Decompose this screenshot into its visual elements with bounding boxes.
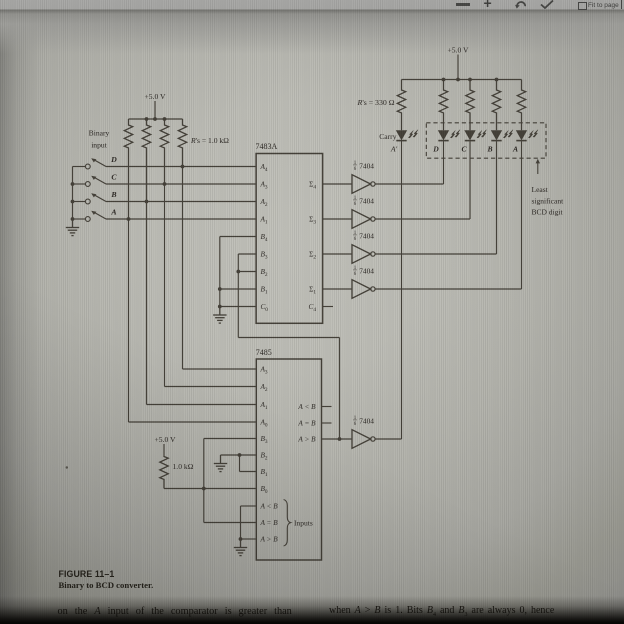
- svg-text:A0: A0: [260, 419, 268, 429]
- toolbar icon: zoom in (plus): [484, 0, 492, 11]
- junction B2 / add-6 net: [236, 270, 240, 274]
- junction input D / pull-up & comparator column: [181, 165, 185, 169]
- wire: LED column up to LED D: [443, 141, 445, 184]
- wire: 7485 B3 to pull-up net: [204, 438, 256, 440]
- svg-text:6: 6: [354, 167, 357, 172]
- ground (switch common): [66, 219, 79, 236]
- ground (7485 cascade inputs): [234, 539, 247, 556]
- toolbar icon: check mark: [540, 0, 554, 9]
- switch B (input B): [85, 193, 106, 204]
- svg-text:+5.0 V: +5.0 V: [447, 46, 469, 55]
- inverter U2 1/6 7404: [352, 161, 375, 193]
- wire: 7483A C0 to ground tie: [220, 306, 256, 308]
- svg-text:7404: 7404: [359, 266, 374, 275]
- wire: LED column up to LED B: [496, 141, 498, 254]
- svg-text:Σ2: Σ2: [309, 251, 316, 261]
- inverter U4 1/6 7404: [352, 231, 375, 263]
- wire: input line B to 7483A: [106, 201, 256, 203]
- svg-text:7483A: 7483A: [256, 142, 278, 151]
- wire: 7483A B4 to ground line: [220, 236, 256, 238]
- wire: 7485 B2 to ground: [240, 454, 257, 456]
- wire: into 7485 A0: [129, 421, 257, 423]
- wire: into 7485 A1: [147, 404, 257, 406]
- svg-text:6: 6: [354, 272, 357, 277]
- wire: input line C to 7483A: [106, 183, 256, 185]
- junction input B: [145, 200, 149, 204]
- svg-text:D: D: [432, 145, 439, 154]
- resistor 330 ohm (LED A): [517, 80, 525, 131]
- svg-text:7404: 7404: [359, 161, 374, 170]
- wire: 7485 A>B input to ground: [241, 538, 257, 540]
- wire: inverter U3 output: [375, 218, 470, 220]
- speck on page: [66, 466, 68, 468]
- svg-text:A = B: A = B: [297, 420, 316, 428]
- resistor 1.0k pull-up (input A): [124, 119, 132, 219]
- wire: input B down to 7485 A1: [146, 202, 148, 405]
- wire: 7483A B2 to add-6 net: [238, 271, 256, 273]
- switch A (input A): [85, 211, 106, 222]
- wire: input line D to 7483A: [106, 166, 256, 168]
- svg-text:A > B: A > B: [260, 536, 279, 544]
- wire: LED supply bus: [402, 79, 522, 81]
- svg-text:+5.0 V: +5.0 V: [144, 92, 166, 101]
- wire: input D down to 7485 A3: [182, 167, 184, 370]
- wire: 7485 B1 to ground tie: [240, 471, 257, 473]
- junction on LED bus: [442, 78, 446, 82]
- svg-text:6: 6: [354, 237, 357, 242]
- svg-text:A1: A1: [260, 401, 268, 411]
- svg-text:1.0 kΩ: 1.0 kΩ: [173, 462, 194, 471]
- wire: add-6 net vertical: [237, 254, 239, 338]
- svg-text:B2: B2: [261, 268, 268, 278]
- caption: Binary to BCD converter.: [59, 580, 154, 590]
- wire: A<B output stub: [322, 406, 332, 408]
- toolbar icon: undo arrow: [514, 0, 528, 9]
- wire: add-6 net horizontal: [238, 337, 339, 339]
- svg-text:B4: B4: [261, 233, 268, 243]
- resistor 1.0k pull-up (input B): [142, 119, 150, 202]
- wire: 7483A B3 to add-6 net: [238, 253, 256, 255]
- svg-text:input: input: [91, 141, 108, 150]
- wire: A=B output stub: [322, 422, 332, 424]
- svg-text:7404: 7404: [359, 196, 374, 205]
- wire: into 7485 A3: [183, 368, 257, 370]
- ground (7485 B2,B1): [214, 455, 227, 472]
- wire: switch C stub from ground bus: [73, 183, 86, 185]
- svg-text:B: B: [110, 190, 116, 199]
- wire: into 7485 A2: [165, 386, 257, 388]
- svg-text:Least: Least: [532, 185, 549, 194]
- svg-text:Σ1: Σ1: [309, 286, 316, 296]
- junction B1 / ground tie: [218, 287, 222, 291]
- wire: pull-up bus: [129, 118, 183, 120]
- wire: carry LED cathode down to inverter U6 output: [401, 141, 403, 439]
- svg-text:A3: A3: [260, 181, 268, 191]
- wire: A<B / A>B input tie: [240, 506, 242, 539]
- wire: 7485 A<B input to ground: [241, 505, 257, 507]
- svg-text:significant: significant: [532, 196, 565, 205]
- svg-text:A: A: [110, 208, 116, 217]
- wire: +5V stem to LED bus: [457, 55, 459, 80]
- inverter U6 1/6 7404: [352, 416, 375, 448]
- svg-text:A′: A′: [390, 145, 398, 154]
- svg-text:Σ4: Σ4: [309, 181, 316, 191]
- LED D: [438, 130, 460, 141]
- wire: switch common ground bus: [72, 167, 74, 220]
- svg-text:Carry: Carry: [379, 132, 396, 141]
- svg-text:A2: A2: [260, 198, 268, 208]
- wire: sigma3 to inverter U3 input: [323, 218, 352, 220]
- svg-text:+5.0 V: +5.0 V: [154, 435, 176, 444]
- svg-text:A1: A1: [260, 216, 268, 226]
- wire: inverter U6 output to carry LED: [375, 438, 402, 440]
- svg-text:BCD digit: BCD digit: [532, 208, 564, 217]
- toolbar icon: fit to page: [578, 2, 587, 10]
- svg-text:B3: B3: [261, 435, 268, 445]
- svg-text:A4: A4: [260, 163, 268, 173]
- svg-text:C4: C4: [309, 303, 317, 313]
- wire: 7483A B1 to ground tie: [220, 288, 256, 290]
- wire: pull-up resistor to 7485 B0: [164, 488, 256, 490]
- resistor 1.0k pull-up (input C): [160, 119, 168, 184]
- svg-text:A < B: A < B: [260, 503, 279, 511]
- svg-text:B0: B0: [261, 485, 268, 495]
- svg-text:R's = 1.0 kΩ: R's = 1.0 kΩ: [190, 136, 229, 145]
- svg-text:6: 6: [354, 202, 357, 207]
- wire: C4 stub: [323, 306, 333, 308]
- junction on LED bus: [468, 78, 472, 82]
- svg-text:D: D: [110, 155, 117, 164]
- wire: input line A to 7483A: [106, 218, 256, 220]
- wire: inverter U5 output: [375, 288, 522, 290]
- IC U1 7483A 4-bit adder: [256, 154, 323, 324]
- toolbar icon: zoom out (minus): [456, 3, 470, 6]
- brace: cascade inputs: [284, 500, 291, 547]
- switch D (input D): [85, 158, 106, 169]
- svg-text:A = B: A = B: [260, 519, 279, 527]
- svg-text:B3: B3: [261, 251, 268, 261]
- resistor 330 ohm (carry LED): [397, 80, 405, 131]
- wire: B2 tie to ground: [221, 454, 240, 456]
- svg-text:C: C: [111, 173, 117, 182]
- wire: +5V stem to pull-up bus: [154, 101, 156, 119]
- junction on LED bus: [495, 78, 499, 82]
- ground (7483A B4,B1,C0): [213, 307, 227, 324]
- svg-text:B: B: [486, 145, 492, 154]
- junction C0 / ground tie: [218, 305, 222, 309]
- wire: switch A stub from ground bus: [73, 218, 86, 220]
- svg-text:A < B: A < B: [297, 403, 316, 411]
- wire: add-6 net down to A-greater-B: [339, 338, 341, 440]
- junction A>B input / ground: [239, 537, 243, 541]
- svg-text:A2: A2: [260, 383, 268, 393]
- svg-text:C: C: [461, 145, 467, 154]
- resistor 330 ohm (LED C): [466, 80, 474, 131]
- svg-text:A3: A3: [260, 366, 268, 376]
- inverter U3 1/6 7404: [352, 196, 375, 228]
- resistor 1.0k pull-up (input D): [178, 119, 186, 167]
- wire: LED column up to LED A: [521, 141, 523, 289]
- wire: LED column up to LED C: [469, 141, 471, 219]
- wire: switch D stub from ground bus: [73, 166, 86, 168]
- junction ground bus / switch A: [71, 217, 75, 221]
- svg-text:Σ3: Σ3: [309, 216, 316, 226]
- junction input A: [127, 217, 131, 221]
- junction ground bus / switch B: [71, 200, 75, 204]
- wire: pull-up net vertical: [203, 439, 205, 523]
- wire: input C down to 7485 A2: [164, 184, 166, 387]
- junction on LED bus: [456, 78, 460, 82]
- wire: inverter U2 output: [375, 183, 444, 185]
- wire: +5V stem to 1.0k resistor: [163, 444, 165, 456]
- resistor 1.0k (7485 B3,B0,A=B pull-up): [160, 456, 168, 489]
- switch C (input C): [85, 176, 106, 187]
- junction A>B output / add-6 net: [338, 437, 342, 441]
- svg-text:B2: B2: [261, 452, 268, 462]
- wire: input A down to 7485 A0: [128, 219, 130, 422]
- wire: sigma1 to inverter U5 input: [323, 288, 352, 290]
- svg-text:B1: B1: [261, 468, 268, 478]
- junction B2/B1 ground tie: [238, 453, 242, 457]
- LED B: [491, 130, 513, 141]
- wire: B4/B1/C0 ground tie vertical: [219, 237, 221, 307]
- junction on pull-up bus (supply): [153, 117, 157, 121]
- svg-text:7404: 7404: [359, 416, 374, 425]
- junction ground bus / switch C: [71, 182, 75, 186]
- dashed box: least significant BCD digit group: [426, 123, 546, 158]
- body text fragment right column: [329, 605, 554, 618]
- svg-text:7485: 7485: [256, 348, 272, 357]
- junction on pull-up bus (col C): [163, 117, 167, 121]
- svg-text:B1: B1: [261, 286, 268, 296]
- wire: sigma2 to inverter U4 input: [323, 253, 352, 255]
- caption: FIGURE 11-1: [59, 569, 115, 579]
- svg-text:Inputs: Inputs: [294, 519, 313, 528]
- wire: inverter U4 output: [375, 253, 497, 255]
- wire: B2-B1 tie vertical: [239, 455, 241, 472]
- junction input C: [163, 182, 167, 186]
- wire: sigma4 to inverter U2 input: [323, 183, 352, 185]
- junction on pull-up bus (col B): [145, 117, 149, 121]
- LED A: [516, 130, 538, 141]
- LED carry A': [396, 130, 418, 141]
- svg-text:C0: C0: [261, 303, 269, 313]
- wire: A=B input to pull-up net: [204, 522, 256, 524]
- svg-text:R's = 330 Ω: R's = 330 Ω: [357, 98, 395, 107]
- wire: A>B output to inverter U6: [322, 438, 353, 440]
- svg-text:Binary: Binary: [89, 129, 110, 138]
- wire: switch B stub from ground bus: [73, 201, 86, 203]
- LED C: [465, 130, 487, 141]
- IC U5 7485 magnitude comparator: [256, 359, 321, 560]
- body text fragment left column: [58, 606, 292, 617]
- svg-text:A > B: A > B: [297, 436, 316, 444]
- resistor 330 ohm (LED B): [492, 80, 500, 131]
- resistor 330 ohm (LED D): [439, 80, 447, 131]
- callout arrow to dashed box: [536, 159, 540, 174]
- junction B0 / pull-up net: [202, 487, 206, 491]
- svg-text:6: 6: [354, 422, 357, 427]
- svg-text:7404: 7404: [359, 231, 374, 240]
- svg-text:A: A: [512, 145, 518, 154]
- inverter U5 1/6 7404: [352, 266, 375, 298]
